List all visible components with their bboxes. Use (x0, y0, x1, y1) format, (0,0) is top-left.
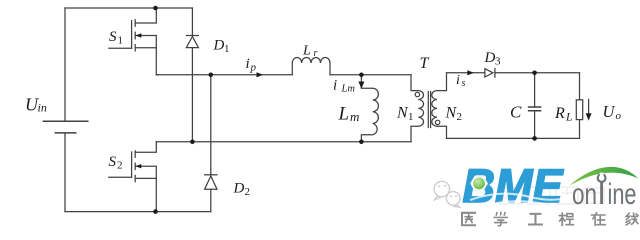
svg-text:1: 1 (408, 111, 414, 123)
svg-text:R: R (554, 105, 565, 122)
svg-text:C: C (510, 103, 522, 122)
svg-text:L: L (338, 104, 350, 125)
svg-text:D: D (213, 38, 225, 54)
svg-text:2: 2 (245, 186, 251, 198)
svg-text:D: D (233, 181, 245, 197)
svg-text:S: S (109, 29, 117, 45)
svg-text:1: 1 (118, 35, 124, 47)
svg-text:S: S (109, 154, 117, 170)
svg-text:i: i (333, 78, 337, 94)
svg-text:Lm: Lm (341, 84, 356, 95)
svg-text:i: i (456, 73, 460, 88)
svg-text:L: L (302, 44, 311, 59)
svg-text:o: o (616, 110, 622, 122)
svg-text:1: 1 (224, 43, 230, 55)
svg-text:r: r (314, 48, 318, 59)
svg-text:i: i (246, 56, 250, 72)
svg-text:2: 2 (117, 160, 123, 172)
svg-text:3: 3 (495, 56, 501, 68)
svg-text:D: D (484, 50, 496, 66)
svg-text:m: m (350, 109, 359, 124)
svg-text:ine: ine (608, 178, 637, 211)
svg-text:T: T (420, 55, 430, 72)
svg-text:U: U (603, 102, 616, 121)
svg-text:L: L (565, 112, 572, 124)
svg-text:s: s (462, 78, 466, 89)
svg-text:in: in (38, 101, 47, 115)
svg-text:on: on (572, 178, 597, 211)
svg-text:2: 2 (457, 111, 463, 123)
svg-text:p: p (250, 62, 257, 74)
